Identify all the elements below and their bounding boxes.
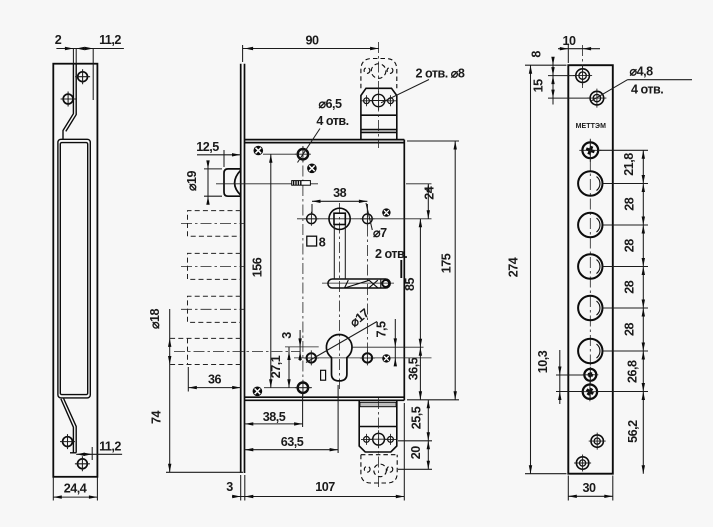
svg-text:8: 8 bbox=[530, 51, 544, 58]
svg-text:11,2: 11,2 bbox=[99, 440, 121, 454]
svg-text:7,5: 7,5 bbox=[375, 321, 389, 338]
svg-text:38,5: 38,5 bbox=[263, 410, 286, 424]
svg-text:28: 28 bbox=[623, 323, 637, 337]
svg-text:4 отв.: 4 отв. bbox=[316, 114, 348, 128]
svg-text:2 отв. ⌀8: 2 отв. ⌀8 bbox=[416, 67, 465, 81]
svg-text:156: 156 bbox=[251, 257, 265, 277]
svg-text:3: 3 bbox=[226, 480, 233, 494]
svg-text:15: 15 bbox=[532, 79, 546, 93]
svg-text:24: 24 bbox=[423, 186, 437, 200]
svg-text:107: 107 bbox=[315, 480, 335, 494]
svg-text:27,1: 27,1 bbox=[269, 355, 283, 378]
svg-text:⌀7: ⌀7 bbox=[373, 226, 387, 240]
svg-text:26,8: 26,8 bbox=[626, 360, 640, 383]
svg-text:274: 274 bbox=[507, 257, 521, 277]
svg-text:МЕТТЭМ: МЕТТЭМ bbox=[576, 123, 607, 130]
svg-text:63,5: 63,5 bbox=[281, 435, 304, 449]
svg-text:2: 2 bbox=[55, 33, 62, 47]
svg-text:90: 90 bbox=[305, 34, 319, 48]
svg-text:25,5: 25,5 bbox=[410, 406, 424, 429]
svg-text:⌀4,8: ⌀4,8 bbox=[630, 65, 654, 79]
svg-text:11,2: 11,2 bbox=[99, 33, 121, 47]
svg-text:56,2: 56,2 bbox=[626, 420, 640, 443]
svg-text:175: 175 bbox=[440, 253, 454, 273]
svg-text:36: 36 bbox=[208, 373, 222, 387]
svg-text:⌀18: ⌀18 bbox=[148, 308, 162, 329]
svg-text:85: 85 bbox=[403, 278, 417, 292]
svg-text:28: 28 bbox=[623, 197, 637, 211]
svg-text:4 отв.: 4 отв. bbox=[631, 83, 663, 97]
svg-text:10: 10 bbox=[562, 34, 576, 48]
svg-text:12,5: 12,5 bbox=[196, 140, 219, 154]
svg-text:10,3: 10,3 bbox=[536, 350, 550, 373]
svg-text:28: 28 bbox=[623, 239, 637, 253]
svg-text:30: 30 bbox=[582, 481, 596, 495]
svg-text:20: 20 bbox=[409, 446, 423, 460]
svg-text:36,5: 36,5 bbox=[406, 357, 420, 380]
svg-text:74: 74 bbox=[150, 411, 164, 425]
svg-text:38: 38 bbox=[333, 186, 347, 200]
svg-text:21,8: 21,8 bbox=[622, 153, 636, 176]
svg-text:8: 8 bbox=[319, 236, 326, 250]
svg-text:24,4: 24,4 bbox=[64, 482, 87, 496]
svg-text:28: 28 bbox=[623, 280, 637, 294]
svg-text:⌀19: ⌀19 bbox=[185, 170, 199, 191]
svg-text:⌀6,5: ⌀6,5 bbox=[318, 97, 342, 111]
svg-text:2 отв.: 2 отв. bbox=[375, 247, 407, 261]
svg-text:3: 3 bbox=[280, 332, 294, 339]
